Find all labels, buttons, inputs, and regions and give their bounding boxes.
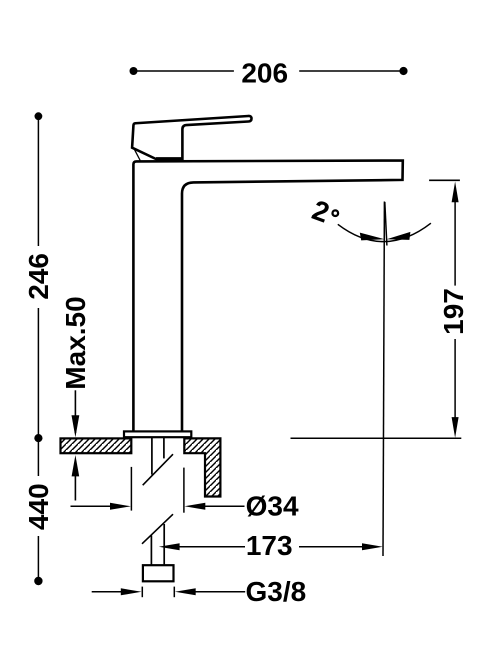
dimension Ø34 left arrow [71,505,113,507]
svg-text:440: 440 [23,483,54,530]
G3/8 connector box [143,565,174,581]
dimension 440 end dots [34,577,42,585]
base flange [124,431,191,437]
spout axis 2-degree tilted line [385,202,387,246]
dimension 440 line [37,438,39,577]
counter level reference line right [291,437,462,439]
countertop right hatched L-section [184,438,220,496]
dimension G3/8 right arrow [194,591,245,593]
faucet body and spout outline [133,161,402,432]
svg-text:246: 246 [23,253,54,300]
2-degree arc right arrowhead [387,232,411,240]
svg-text:206: 206 [241,57,288,88]
2-degree label degree circle [333,210,339,216]
svg-text:G3/8: G3/8 [246,576,307,607]
supply pipe lower section [151,524,164,565]
svg-text:Max.50: Max.50 [60,296,91,389]
dimension 206 end dots [130,67,138,75]
dimension G3/8 left arrow [92,591,122,593]
svg-text:197: 197 [438,288,469,335]
Max.50 lower arrow [74,472,76,501]
handle base thick contact bar [156,157,183,160]
handle front edge thin line [134,149,140,160]
Max.50 upper arrow [74,390,76,433]
dimension Ø34 extension lines [131,467,184,513]
dimension 197 top arrow [452,182,459,203]
dimension 206 line [134,70,405,72]
pipe break slash upper [143,454,173,485]
2-degree arc [338,223,431,241]
dimension 246 line [37,116,39,438]
svg-text:173: 173 [246,530,293,561]
dimension 246 end dots [35,112,43,120]
pipe break slash lower [142,514,173,544]
countertop left hatched section [61,438,132,453]
supply pipe upper stub [152,438,164,475]
dimension 197 line [454,200,456,420]
dimension 197 bottom arrow [452,417,459,438]
spout axis vertical reference line [383,202,384,557]
svg-text:Ø34: Ø34 [246,491,299,522]
dimension 197 top tick [429,179,460,181]
dimension 173 line [177,546,364,548]
dimension 173 left arrow [159,543,180,550]
2-degree arc left arrowhead [360,233,385,241]
faucet lever handle outline [132,116,251,160]
dimension 173 right arrow [362,543,383,550]
dimension G3/8 extension ticks [142,587,174,598]
dimension Ø34 right arrow [204,505,245,507]
